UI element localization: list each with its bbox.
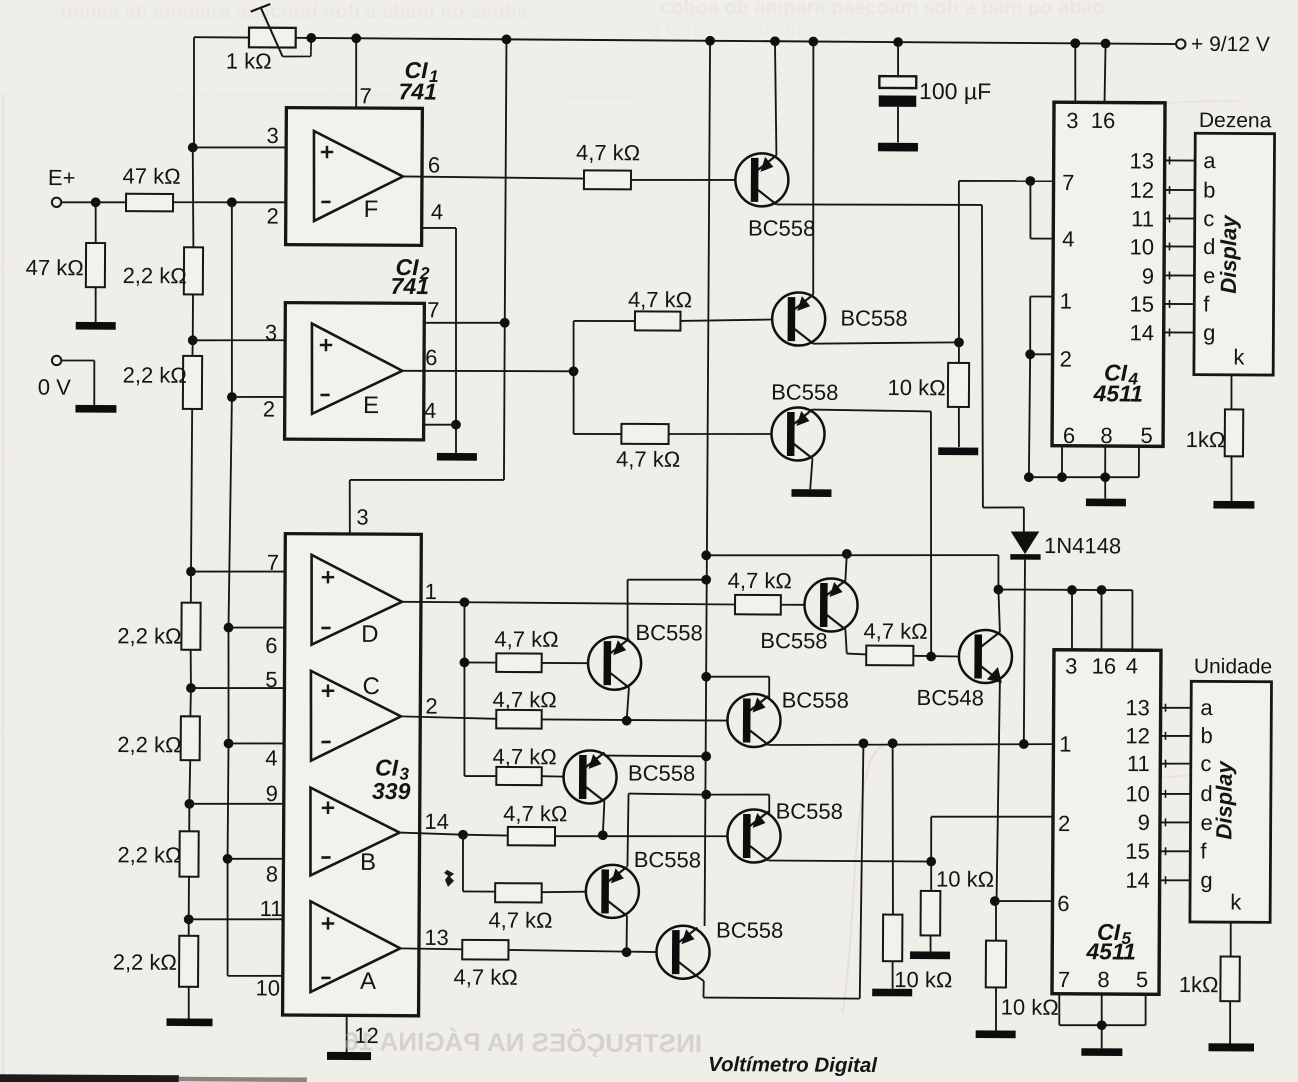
ink artifact mark [444, 870, 454, 887]
wire chain segment 9 [188, 804, 190, 831]
svg-text:b: b [1203, 177, 1215, 202]
svg-text:10: 10 [256, 975, 281, 1000]
svg-text:14: 14 [424, 809, 449, 834]
node BC548 base [926, 652, 936, 662]
wire CI5 pin10 to display d [1160, 793, 1191, 795]
svg-text:4,7 kΩ: 4,7 kΩ [616, 447, 680, 472]
svg-text:4,7 kΩ: 4,7 kΩ [576, 140, 640, 165]
wire CI4 pin16 to rail [1105, 44, 1106, 103]
svg-text:INSTRUÇÕES NA PÁGINA 16: INSTRUÇÕES NA PÁGINA 16 [344, 1026, 702, 1058]
svg-text:11: 11 [260, 896, 283, 921]
svg-text:B: B [360, 849, 376, 876]
svg-text:3: 3 [266, 123, 278, 148]
wire CI3 pin6 input [228, 626, 311, 629]
node BC548 collector tie [993, 585, 1003, 595]
wire CI2 pin4 [424, 424, 456, 426]
wire minus chain vertical [226, 202, 314, 976]
node supply y677 [701, 672, 711, 682]
wire CI3 pin5 input [191, 687, 311, 688]
svg-text:C: C [363, 673, 380, 700]
resistor 10 kΩ BC548 emitter [985, 901, 1059, 1031]
wire CI3 pin11 input [189, 919, 311, 921]
wire CI5 bottom pins to ground [1059, 993, 1146, 1048]
pin notches CI5 [1164, 704, 1166, 885]
svg-text:741: 741 [391, 273, 430, 299]
ground below 47k [76, 322, 116, 330]
svg-text:47 kΩ: 47 kΩ [26, 255, 84, 280]
pin3 CI3 label [356, 505, 368, 530]
svg-text:onnea ab ammara anacond nob a: onnea ab ammara anacond nob a abam no se… [60, 1, 528, 23]
wire chain segment 4 [191, 409, 192, 572]
transistor QB BC558 [727, 798, 843, 863]
wire supply to CI5 Vdd bus [706, 553, 999, 589]
resistor 1kΩ Unidade cathode [1178, 922, 1240, 1044]
svg-text:BC558: BC558 [716, 917, 783, 942]
node supply y580 [701, 575, 711, 585]
trimmer potentiometer 1 kΩ [226, 4, 312, 74]
svg-text:b: b [1200, 723, 1212, 748]
wire CI4 pin15 to display f [1164, 303, 1195, 305]
transistor Q7 BC558 [586, 847, 701, 919]
svg-text:1: 1 [1060, 288, 1072, 313]
node CI2 output junction [569, 366, 579, 376]
node Q2 collector 10k [954, 337, 964, 347]
svg-text:3: 3 [1066, 108, 1078, 133]
svg-text:10 kΩ: 10 kΩ [894, 967, 952, 992]
transistor Q5 BC558 [563, 750, 695, 804]
transistor Q4 BC558 [588, 620, 703, 690]
node CI4 pin6 [1057, 472, 1067, 482]
resistor 47 kΩ to ground [25, 202, 105, 322]
terminal 0 V [38, 356, 72, 400]
ground CI4 pin8 [1086, 499, 1126, 507]
svg-text:8: 8 [1100, 423, 1112, 448]
node chain to CI3 pin9 [184, 799, 194, 809]
wire rail to divider chain [193, 37, 194, 147]
wire CI4 pin13 to display a [1164, 159, 1195, 161]
comparator B [265, 781, 400, 887]
svg-text:1kΩ: 1kΩ [1186, 427, 1226, 452]
svg-text:4: 4 [1126, 653, 1138, 678]
svg-text:16: 16 [1092, 653, 1117, 678]
svg-text:BC558: BC558 [635, 620, 702, 645]
svg-text:c: c [1200, 751, 1211, 776]
IC CI5 4511 [1052, 650, 1161, 995]
wire Q2 emitter to rail [812, 42, 815, 295]
junction rail central supply [705, 36, 715, 46]
resistor 10 kΩ QC net [883, 743, 954, 992]
resistor 4,7 kΩ to BC548 [863, 619, 927, 666]
wire CI4 pin10 to display d [1164, 245, 1195, 247]
ground capacitor [878, 143, 918, 152]
wire CI4 pin11 to display c [1164, 217, 1195, 219]
svg-text:741: 741 [398, 78, 437, 104]
svg-text:15: 15 [1125, 839, 1150, 864]
wire Q3 collector to ground [810, 459, 812, 490]
wire CI4 pin12 to display b [1164, 189, 1195, 191]
ground 10k QC [872, 989, 912, 997]
svg-text:5: 5 [1136, 967, 1148, 992]
terminal E+ [48, 165, 76, 207]
wire Q6 collector to 4,7k [845, 629, 866, 654]
svg-text:7: 7 [1058, 967, 1070, 992]
svg-text:2: 2 [1060, 346, 1072, 371]
node chain to CI3 pin7 [186, 567, 196, 577]
svg-text:100 µF: 100 µF [919, 78, 991, 104]
wire central supply vertical [705, 41, 710, 926]
svg-text:10 kΩ: 10 kΩ [1001, 995, 1059, 1020]
wire CI2 pin6 output [402, 370, 573, 371]
svg-text:2,2 kΩ: 2,2 kΩ [113, 950, 177, 975]
wire chain segment 7 [189, 688, 192, 716]
node diode cathode CI5 pin1 [1019, 739, 1029, 749]
svg-text:BC558: BC558 [748, 215, 815, 240]
svg-text:4,7 kΩ: 4,7 kΩ [492, 744, 556, 769]
svg-text:E+: E+ [48, 165, 76, 190]
node CI3 pin6 junction [224, 623, 234, 633]
wire B output pin14 [400, 809, 464, 835]
svg-text:2,2 kΩ: 2,2 kΩ [117, 732, 181, 757]
wire output branch vertical [573, 321, 635, 435]
wire BC548 collector up [998, 590, 1000, 633]
wire QB collector to CI5 pin2 [769, 815, 1053, 862]
svg-text:2: 2 [266, 203, 278, 228]
resistor 4,7 kΩ B row [503, 801, 567, 846]
svg-text:14: 14 [1125, 868, 1150, 893]
node D branch 4,7k row1 [459, 658, 469, 668]
wire supply branch vertical x505 [349, 38, 506, 534]
wire supply to Q4 emitter [627, 579, 706, 641]
wire CI4 pins1-2 tie [1029, 296, 1053, 477]
svg-text:k: k [1233, 344, 1245, 369]
wire CI5 pin12 to display b [1160, 735, 1191, 737]
ground 10k QB [910, 951, 950, 959]
svg-text:4: 4 [424, 398, 436, 423]
wire CI4 pin4 loop [1030, 181, 1053, 239]
caption Voltímetro Digital [708, 1053, 878, 1077]
transistor Q1 BC558 [735, 153, 816, 241]
node A row / Q7 collector [622, 947, 632, 957]
wire to Q3 base [669, 433, 772, 434]
wire CI1 pin4 [421, 228, 458, 453]
ground 10k BC548 [976, 1030, 1016, 1038]
junction rail capacitor [893, 37, 903, 47]
svg-text:4511: 4511 [1085, 938, 1136, 964]
ground Q3 collector [791, 489, 831, 497]
svg-text:9: 9 [1142, 264, 1154, 289]
wire chain segment 11 [188, 919, 190, 936]
svg-text:16: 16 [1091, 108, 1116, 133]
svg-text:13: 13 [1125, 695, 1150, 720]
node QC collector 10k-a [859, 738, 869, 748]
resistor 4,7 kΩ F output [576, 140, 640, 189]
wire CI5 Vdd bus [998, 589, 1133, 650]
svg-text:9: 9 [1138, 810, 1150, 835]
wire CI2 pin3 input [193, 340, 312, 341]
wire D row to 4,7k [464, 602, 735, 604]
svg-text:2,2 kΩ: 2,2 kΩ [123, 362, 187, 387]
wire A row to Q8 base [508, 950, 657, 952]
node CI5 pin6 [990, 896, 1000, 906]
wire 47k to CI1 pin2 [173, 202, 286, 203]
resistor 2,2 kΩ #5 [117, 831, 198, 877]
wire CI3 pin7 input [191, 571, 312, 572]
svg-text:3: 3 [1065, 653, 1077, 678]
svg-text:BC558: BC558 [771, 380, 838, 405]
node QC base row / Q4 collector [622, 716, 632, 726]
svg-text:4,7 kΩ: 4,7 kΩ [728, 568, 792, 593]
wire chain segment 2 [192, 294, 194, 340]
svg-text:2: 2 [263, 396, 275, 421]
wire supply to QC emitter [706, 676, 769, 697]
wire supply to QB emitter [706, 794, 769, 813]
node CI5 pin8 ground [1097, 1020, 1107, 1030]
svg-text:13: 13 [1130, 148, 1155, 173]
svg-text:BC558: BC558 [634, 847, 701, 872]
transistor Q8 BC558 [656, 917, 783, 979]
svg-text:BC558: BC558 [776, 799, 843, 824]
svg-text:3: 3 [265, 320, 277, 345]
junction CI2 pin7 [500, 318, 510, 328]
svg-text:10 kΩ: 10 kΩ [936, 866, 994, 891]
wire to Q2 base [680, 319, 772, 322]
wire BC548 emitter down [997, 681, 1000, 901]
node CI1 pin2 junction [227, 197, 237, 207]
terminal +9/12V [1176, 33, 1270, 57]
svg-text:5: 5 [265, 667, 277, 692]
comparator C [265, 667, 402, 771]
wire CI5 pin11 to display c [1160, 762, 1191, 764]
resistor 4,7 kΩ to Q3 [616, 424, 680, 472]
svg-text:10: 10 [1125, 781, 1150, 806]
wire 4,7k to Q1 base [631, 179, 736, 180]
svg-text:2: 2 [425, 694, 437, 719]
svg-text:10 kΩ: 10 kΩ [888, 375, 946, 400]
resistor 4,7 kΩ A row [454, 940, 518, 990]
svg-text:6: 6 [1057, 891, 1069, 916]
wire Q4 collector down [627, 687, 629, 720]
wire CI2 pin7 to supply branch [424, 321, 505, 324]
svg-text:12: 12 [1129, 178, 1154, 203]
svg-text:0 V: 0 V [38, 374, 71, 399]
svg-text:47 kΩ: 47 kΩ [123, 163, 181, 188]
node D output [460, 597, 470, 607]
svg-text:CI: CI [375, 755, 399, 781]
resistor 2,2 kΩ #3 [117, 602, 200, 650]
resistor 10 kΩ at CI4 [887, 342, 969, 447]
resistor 4,7 kΩ to Q7 [488, 883, 552, 933]
svg-text:BC548: BC548 [917, 685, 984, 710]
svg-text:Unidade: Unidade [1194, 655, 1272, 678]
svg-text:6: 6 [1063, 423, 1075, 448]
node CI4 ground bus left [1024, 472, 1034, 482]
ground Dezena 1k [1213, 501, 1254, 509]
svg-text:coboa ob ampara paecoam sob a: coboa ob ampara paecoam sob a pam po aba… [660, 0, 1105, 19]
svg-text:4: 4 [431, 199, 443, 224]
wire Q1 collector to diode branch [775, 204, 1026, 532]
svg-text:a opnimsto ao amoando: a opnimsto ao amoando [650, 20, 854, 41]
node B output [458, 830, 468, 840]
svg-text:BC558: BC558 [782, 687, 849, 712]
op-amp CI1 741 comparator F [266, 56, 444, 245]
wire chain segment 1 [192, 147, 194, 247]
wire B branch vertical [463, 835, 496, 892]
ground CI1/CI2 pin4 [437, 453, 477, 461]
capacitor 100 µF [879, 42, 992, 143]
wire CI3 pin8 input [228, 857, 311, 860]
wire CI5 pin14 to display g [1160, 879, 1191, 881]
svg-text:g: g [1200, 867, 1212, 892]
svg-text:4,7 kΩ: 4,7 kΩ [454, 964, 518, 989]
svg-text:BC558: BC558 [628, 760, 695, 785]
node CI3 pin8 junction [223, 854, 233, 864]
svg-text:4,7 kΩ: 4,7 kΩ [493, 687, 557, 712]
ground 10k CI4 [938, 447, 978, 455]
wire chain segment 5 [190, 572, 192, 603]
wire supply to Q7 emitter [627, 794, 706, 867]
node CI4 pin8 [1100, 472, 1110, 482]
resistor 4,7 kΩ to Q2 [628, 287, 692, 331]
node CI5 pin3 stub [1067, 585, 1077, 595]
resistor 4,7 kΩ to Q5 [492, 744, 556, 785]
node CI3 pin4 junction [224, 739, 234, 749]
node CI2 pin2 junction [227, 392, 237, 402]
wire to Q6 base [781, 604, 805, 606]
svg-text:1: 1 [425, 579, 437, 604]
node CI4 pin7/pin4 tie [1025, 176, 1035, 186]
wire chain segment 8 [188, 760, 191, 804]
svg-text:a: a [1200, 695, 1213, 720]
wire supply to Q5 emitter [605, 755, 706, 758]
node CI4 pin2 [1025, 349, 1035, 359]
svg-text:6: 6 [425, 345, 437, 370]
transistor Q3 BC558 [771, 380, 839, 461]
wire to Q7 base [542, 891, 587, 892]
svg-text:4,7 kΩ: 4,7 kΩ [503, 801, 567, 826]
svg-text:Dezena: Dezena [1199, 109, 1272, 132]
transistor QC BC558 [727, 687, 849, 747]
svg-text:A: A [360, 968, 376, 995]
resistor 2,2 kΩ #2 [122, 356, 202, 409]
svg-text:8: 8 [266, 861, 278, 886]
svg-text:11: 11 [1131, 206, 1154, 231]
wire A output pin13 [400, 925, 462, 950]
wire C output pin2 [401, 693, 496, 719]
node supply y756 [701, 751, 711, 761]
node chain to CI1 pin3 [188, 143, 198, 153]
diode 1N4148 [1009, 531, 1121, 744]
wire CI5 pin13 to display a [1160, 707, 1191, 709]
wire chain segment 6 [189, 650, 192, 688]
junction rail Q1 [770, 36, 780, 46]
junction rail CI1 pin7 [351, 33, 361, 43]
svg-text:Voltímetro Digital: Voltímetro Digital [708, 1053, 878, 1077]
svg-text:4: 4 [265, 745, 277, 770]
resistor 4,7 kΩ to Q4 [494, 627, 558, 673]
svg-text:1 kΩ: 1 kΩ [226, 48, 272, 73]
svg-text:2,2 kΩ: 2,2 kΩ [117, 842, 181, 867]
node CI2 pin4 junction [451, 420, 461, 430]
svg-text:f: f [1203, 291, 1210, 316]
display Unidade [1190, 655, 1272, 922]
svg-text:e: e [1203, 263, 1215, 288]
resistor 10 kΩ QB collector [920, 861, 994, 951]
wire D branch vertical [463, 602, 497, 776]
svg-text:7: 7 [1062, 170, 1074, 195]
svg-text:1kΩ: 1kΩ [1179, 972, 1219, 997]
wire 0V to ground [61, 360, 94, 405]
wire 4,7k to BC548 base [913, 655, 959, 658]
wire CI3 pin4 input [229, 742, 312, 745]
svg-text:c: c [1203, 206, 1214, 231]
wire C row to QC base [542, 719, 728, 720]
wire Q6 emitter up [845, 554, 846, 581]
junction trimmer wiper to rail [306, 33, 316, 43]
svg-text:5: 5 [1140, 423, 1152, 448]
svg-text:7: 7 [427, 297, 439, 322]
svg-text:F: F [364, 196, 379, 223]
node chain to CI3 pin11 [184, 914, 194, 924]
svg-text:4,7 kΩ: 4,7 kΩ [863, 619, 927, 644]
svg-text:E: E [363, 392, 379, 419]
comparator A [256, 896, 401, 1001]
wire Q3 emitter to BC548 base [811, 410, 933, 657]
svg-text:14: 14 [1129, 320, 1154, 345]
wire CI1 pin7 supply [355, 38, 358, 108]
svg-text:13: 13 [424, 925, 449, 950]
svg-text:10: 10 [1129, 234, 1154, 259]
svg-text:d: d [1203, 234, 1215, 259]
wire QC collector to CI5 pin1 [769, 742, 1053, 746]
wire CI4 pin14 to display g [1164, 331, 1195, 333]
wire Q7 collector down [626, 916, 628, 952]
transistor Q6 BC558 [760, 578, 857, 653]
wire CI4 pin9 to display e [1164, 274, 1195, 276]
wire CI5 pin9 to display e [1160, 821, 1191, 823]
wire D output pin1 [402, 579, 465, 604]
svg-text:7: 7 [359, 83, 371, 108]
wire Q2 collector to 10k node [813, 342, 959, 345]
svg-text:9: 9 [266, 781, 278, 806]
display Dezena [1194, 109, 1275, 375]
wire Q1 emitter to rail [774, 41, 777, 155]
svg-text:g: g [1203, 320, 1215, 345]
wire E+ to node [61, 201, 95, 203]
svg-text:4,7 kΩ: 4,7 kΩ [628, 287, 692, 312]
node E+ junction [91, 197, 101, 207]
svg-text:a: a [1203, 148, 1216, 173]
wire chain to ground [188, 987, 190, 1019]
svg-text:BC558: BC558 [760, 628, 827, 653]
node chain to CI3 pin5 [186, 683, 196, 693]
node QC collector 10k-b [888, 738, 898, 748]
svg-text:12: 12 [1125, 723, 1150, 748]
svg-text:4511: 4511 [1092, 380, 1143, 406]
svg-text:4: 4 [1062, 226, 1074, 251]
wire CI3 pin9 input [189, 803, 310, 804]
node QB collector [926, 857, 936, 867]
ground CI5 [1081, 1048, 1122, 1056]
svg-text:f: f [1200, 838, 1207, 863]
node QB base row / Q5 collector [598, 830, 608, 840]
IC CI3 339 quad comparator [283, 534, 422, 1016]
wire +9/12V supply rail [194, 37, 1176, 44]
wire CI5 pin6 [995, 900, 1053, 903]
wire CI4 pin3 to rail [1074, 43, 1077, 102]
svg-text:1: 1 [1059, 731, 1071, 756]
wire CI2 pin2 input [232, 395, 312, 398]
wire Q8 collector to QC net [697, 742, 863, 998]
